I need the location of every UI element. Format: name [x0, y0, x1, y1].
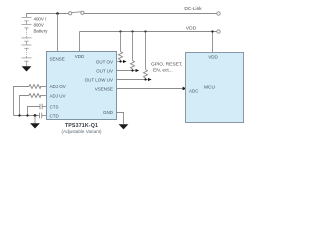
wire ground rail CTD row — [14, 115, 40, 117]
node VDD rail to MCU — [211, 30, 213, 32]
node OUT OV pull-up junction — [119, 60, 121, 62]
node ground drop on rail — [34, 114, 37, 117]
svg-text:EN, ect...: EN, ect... — [153, 67, 173, 73]
wire C2 to CTD pin — [42, 115, 47, 117]
wire ADJ UV branch — [20, 96, 30, 116]
svg-text:MCU: MCU — [204, 84, 215, 90]
MCU U2 body — [186, 53, 244, 123]
arrow OUT LOW UV to GPIO — [148, 78, 152, 81]
wire CTS branch — [28, 107, 41, 116]
ground divider rail — [30, 123, 40, 128]
node CTS leg on rail — [26, 114, 28, 116]
svg-text:400V /: 400V / — [34, 17, 47, 22]
svg-text:VSENSE: VSENSE — [95, 86, 113, 91]
svg-text:GND: GND — [103, 110, 114, 115]
node junction on top wire — [56, 12, 59, 15]
svg-text:(Adjustable Variant): (Adjustable Variant) — [61, 129, 101, 134]
node ADJ UV leg on rail — [18, 114, 20, 116]
wire VDD pin up to VDD rail — [79, 32, 81, 52]
svg-text:Battery: Battery — [34, 28, 49, 33]
svg-text:VDD: VDD — [186, 26, 197, 32]
label GPIO, RESET, EN, ect... — [151, 61, 182, 73]
op-amp U1 TPS371K-Q1 window voltage monitor body — [47, 52, 117, 120]
svg-text:CTD: CTD — [50, 114, 60, 119]
wire VSENSE to ADC — [117, 88, 183, 90]
wire ADJ OV branch — [14, 87, 30, 116]
arrow OUT OV to GPIO — [123, 60, 127, 63]
terminal DC-Link — [217, 12, 220, 15]
wire VDD rail down to MCU VDD — [212, 32, 214, 53]
wire C1 to CTS pin — [42, 106, 46, 108]
wire switch to DC-Link terminal — [84, 13, 217, 15]
ground battery negative — [22, 66, 32, 71]
node VDD rail to R6 — [144, 30, 146, 32]
resistor R4 pull-up OUT OV — [119, 32, 123, 62]
wire VDD rail — [80, 31, 217, 33]
wire OUT UV signal — [117, 70, 136, 72]
node OUT LOW UV pull-up junction — [144, 78, 146, 80]
node OUT UV pull-up junction — [131, 69, 133, 71]
arrow VSENSE into ADC — [183, 87, 187, 91]
wire GND pin to ground — [117, 113, 124, 125]
label battery 400V / 800V Battery — [34, 17, 49, 34]
switch S1 — [69, 11, 84, 15]
wire junction down to SENSE pin — [57, 14, 59, 52]
ground IC GND — [119, 124, 129, 129]
wire rail down to ground — [34, 116, 36, 124]
capacitor C1 on CTS — [40, 104, 42, 110]
svg-text:SENSE: SENSE — [50, 56, 65, 61]
node VDD rail to R5 — [131, 30, 133, 32]
svg-text:800V: 800V — [34, 22, 44, 27]
resistor R2 to ADJ UV — [29, 94, 41, 98]
svg-text:VDD: VDD — [75, 54, 85, 59]
svg-text:OUT UV: OUT UV — [96, 68, 113, 73]
svg-text:ADC: ADC — [189, 89, 199, 94]
svg-text:CTS: CTS — [50, 105, 59, 110]
svg-text:ADJ UV: ADJ UV — [50, 93, 66, 98]
wire OUT OV signal — [117, 61, 123, 63]
wire battery positive to switch — [27, 14, 69, 18]
svg-text:OUT LOW UV: OUT LOW UV — [85, 77, 113, 82]
svg-text:GPIO, RESET,: GPIO, RESET, — [151, 61, 182, 67]
wire R1 to ADJ OV pin — [40, 86, 47, 88]
terminal VDD — [217, 30, 220, 33]
wire OUT LOW UV signal — [117, 79, 148, 81]
resistor R1 to ADJ OV — [29, 85, 41, 89]
node VDD rail to R4 — [119, 30, 121, 32]
svg-text:OUT OV: OUT OV — [96, 59, 113, 64]
capacitor C2 on CTD — [40, 113, 42, 119]
resistor R5 pull-up OUT UV — [131, 32, 135, 71]
svg-text:ADJ OV: ADJ OV — [50, 84, 66, 89]
svg-text:VDD: VDD — [208, 55, 218, 60]
battery B1 400V/800V — [22, 17, 32, 66]
svg-text:DC-Link: DC-Link — [184, 6, 202, 12]
wire R2 to ADJ UV pin — [40, 95, 47, 97]
resistor R6 pull-up OUT LOW UV — [144, 32, 148, 80]
arrow OUT UV to GPIO — [136, 69, 140, 72]
